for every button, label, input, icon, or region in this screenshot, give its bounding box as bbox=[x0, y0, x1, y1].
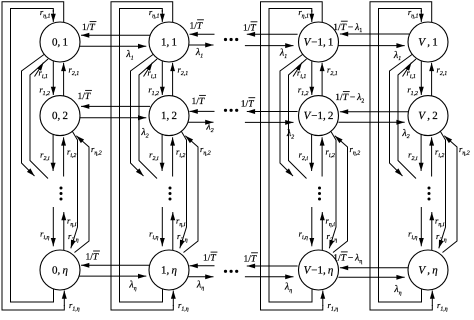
node V-1,1 bbox=[299, 22, 339, 62]
column 0: outer loop r_1eta wire bbox=[2, 2, 64, 310]
node 0,eta bbox=[40, 250, 80, 290]
node V,2 bbox=[408, 96, 448, 136]
column 3: arrow r_ieta bbox=[420, 207, 422, 246]
column 2: inner loop r_eta1 wire bbox=[269, 9, 312, 303]
row 2: lambda arrow rightward seg V-1-V bbox=[338, 121, 404, 123]
svg-text:1/T: 1/T bbox=[78, 92, 91, 102]
row 1: lambda arrow rightward seg dots-V-1 bbox=[245, 45, 294, 47]
column 0: arrow r_21 bbox=[63, 63, 65, 96]
column 3: wire+arrow r_2eta long right bbox=[439, 131, 446, 249]
svg-text:1/T − λ1: 1/T − λ1 bbox=[333, 23, 362, 34]
row 1: 1/T arrow leftward seg V-1-V bbox=[340, 33, 409, 35]
row 2: 1/T arrow leftward seg V-1-V bbox=[340, 111, 409, 113]
svg-text:1/T: 1/T bbox=[86, 253, 99, 263]
row 1: 1/T arrow leftward seg 0-1 bbox=[81, 34, 150, 36]
column 1: wire+arrow r_eta2 long right bbox=[184, 136, 199, 253]
column 2: outer loop r_1eta wire bbox=[261, 2, 323, 310]
column 3: wire+arrow r_eta2 long right bbox=[443, 136, 458, 253]
row 2: 1/T arrow leftward seg 0-1 bbox=[81, 105, 150, 107]
svg-text:1/T − λ2: 1/T − λ2 bbox=[335, 93, 364, 104]
column 3: arrow r_1eta into bottom node bbox=[431, 291, 433, 307]
column 1: arrow r_1eta into bottom node bbox=[172, 291, 174, 307]
column 3: wire+arrow r_1i long left bbox=[390, 55, 413, 177]
column 1: inner loop r_eta1 wire bbox=[120, 9, 163, 303]
svg-text:1, 2: 1, 2 bbox=[161, 110, 177, 122]
column 3: arrow r_eta1 into top node bbox=[420, 10, 422, 22]
node 1,eta bbox=[149, 250, 189, 290]
column 1: outer loop r_1eta wire bbox=[111, 2, 173, 310]
node 1,2 bbox=[149, 96, 189, 136]
column 3: arrow r_i2 bbox=[431, 137, 433, 176]
row 1: horizontal dots bbox=[224, 38, 227, 41]
column 3: wire r_i1 long left bbox=[398, 59, 416, 179]
column 2: wire+arrow r_1i long left bbox=[280, 55, 303, 177]
row 3: lambda arrow rightward seg 1-dots bbox=[188, 276, 213, 278]
column 3: arrow r_2i bbox=[420, 135, 422, 171]
column 2: arrow r_i1 into node bbox=[293, 63, 302, 77]
svg-text:1/T: 1/T bbox=[82, 23, 95, 33]
row 2: lambda arrow rightward seg 0-1 bbox=[79, 117, 146, 119]
svg-text:1/T: 1/T bbox=[244, 254, 257, 264]
column 2: wire r_i1 long left bbox=[289, 59, 307, 179]
column 2: wire+arrow r_2eta long right bbox=[329, 131, 336, 249]
column 2: wire+arrow r_eta2 long right bbox=[333, 136, 348, 253]
column 3: arrow r_i1 into node bbox=[403, 63, 412, 77]
column 0: wire r_i1 long left bbox=[30, 59, 48, 179]
column 0: wire+arrow r_1i long left bbox=[22, 55, 45, 177]
column 1: arrow r_etai bbox=[172, 212, 174, 250]
column 2: arrow r_eta1 into top node bbox=[311, 10, 313, 22]
column 2: arrow r_2i bbox=[311, 135, 313, 171]
row 3: lambda arrow rightward seg 0-1 bbox=[79, 275, 146, 277]
column 1: arrow r_21 bbox=[172, 63, 174, 96]
column 0: arrow r_etai bbox=[63, 212, 65, 250]
svg-text:V −1, 2: V −1, 2 bbox=[304, 110, 334, 122]
row 2: horizontal dots bbox=[224, 109, 227, 112]
row 3: horizontal dots bbox=[224, 270, 227, 273]
column 3: vertical dots bbox=[428, 187, 431, 190]
node V-1,eta bbox=[299, 250, 339, 290]
row 1: 1/T arrow leftward seg dots-V-1 bbox=[247, 33, 298, 35]
row 3: 1/T arrow leftward seg 0-1 bbox=[81, 264, 150, 266]
svg-text:V −1, 1: V −1, 1 bbox=[304, 37, 334, 49]
row 2: 1/T arrow leftward seg 1-dots bbox=[190, 110, 215, 112]
column 1: wire r_i1 long left bbox=[139, 59, 157, 179]
column 2: arrow r_i2 bbox=[321, 137, 323, 176]
row 1: lambda arrow rightward seg 1-dots bbox=[188, 44, 213, 46]
row 1: 1/T arrow leftward seg 1-dots bbox=[190, 33, 215, 35]
column 0: arrow r_ieta bbox=[52, 207, 54, 246]
svg-text:1/T: 1/T bbox=[241, 99, 254, 109]
column 2: arrow r_12 bbox=[311, 61, 313, 95]
row 3: 1/T arrow leftward seg dots-V-1 bbox=[247, 265, 298, 267]
column 2: arrow r_1eta into bottom node bbox=[322, 291, 324, 307]
column 1: wire+arrow r_2eta long right bbox=[180, 131, 187, 249]
column 0: arrow r_eta1 into top node bbox=[52, 10, 54, 22]
node V-1,2 bbox=[299, 96, 339, 136]
row 3: lambda arrow rightward seg V-1-V bbox=[338, 276, 404, 278]
svg-text:1/T: 1/T bbox=[203, 254, 216, 264]
node 0,2 bbox=[40, 96, 80, 136]
column 0: vertical dots bbox=[60, 187, 63, 190]
node 1,1 bbox=[149, 22, 189, 62]
column 1: wire+arrow r_1i long left bbox=[131, 55, 154, 177]
column 2: arrow r_21 bbox=[321, 63, 323, 96]
svg-text:0, η: 0, η bbox=[52, 265, 68, 277]
column 0: arrow r_1eta into bottom node bbox=[63, 291, 65, 307]
svg-text:V , 2: V , 2 bbox=[418, 110, 437, 122]
row 3: 1/T arrow leftward seg V-1-V bbox=[340, 267, 409, 269]
node V,1 bbox=[408, 22, 448, 62]
column 0: arrow r_i2 bbox=[63, 137, 65, 176]
node 0,1 bbox=[40, 22, 80, 62]
column 1: arrow r_12 bbox=[161, 61, 163, 95]
column 3: arrow r_etai bbox=[431, 212, 433, 250]
svg-text:1, η: 1, η bbox=[161, 265, 177, 277]
svg-text:1/T: 1/T bbox=[190, 21, 203, 31]
row 1: lambda arrow rightward seg 0-1 bbox=[79, 45, 146, 47]
column 1: arrow r_2i bbox=[161, 135, 163, 171]
column 3: outer loop r_1eta wire bbox=[370, 2, 432, 310]
column 0: wire+arrow r_eta2 long right bbox=[75, 136, 90, 253]
column 0: arrow r_i1 into node bbox=[35, 63, 44, 77]
svg-text:1/T: 1/T bbox=[243, 23, 256, 33]
column 0: inner loop r_eta1 wire bbox=[11, 9, 54, 303]
svg-text:1/T: 1/T bbox=[192, 97, 205, 107]
column 0: wire+arrow r_2eta long right bbox=[71, 131, 78, 249]
row 3: 1/T arrow leftward seg 1-dots bbox=[190, 265, 215, 267]
column 2: arrow r_etai bbox=[321, 212, 323, 250]
column 0: arrow r_12 bbox=[52, 61, 54, 95]
column 3: arrow r_21 bbox=[431, 63, 433, 96]
svg-text:0, 2: 0, 2 bbox=[52, 110, 68, 122]
row 1: lambda arrow rightward seg V-1-V bbox=[338, 45, 404, 47]
svg-text:0, 1: 0, 1 bbox=[52, 37, 68, 49]
column 2: arrow r_ieta bbox=[311, 207, 313, 246]
column 3: arrow r_12 bbox=[420, 61, 422, 95]
row 2: 1/T arrow leftward seg dots-V-1 bbox=[247, 111, 298, 113]
svg-text:V , 1: V , 1 bbox=[418, 37, 437, 49]
svg-text:V −1, η: V −1, η bbox=[304, 265, 334, 277]
node V,eta bbox=[408, 250, 448, 290]
column 2: vertical dots bbox=[318, 187, 321, 190]
column 1: arrow r_i2 bbox=[172, 137, 174, 176]
column 1: arrow r_eta1 into top node bbox=[161, 10, 163, 22]
column 1: vertical dots bbox=[169, 187, 172, 190]
svg-text:V , η: V , η bbox=[418, 265, 437, 277]
column 3: inner loop r_eta1 wire bbox=[379, 9, 422, 303]
row 3: lambda arrow rightward seg dots-V-1 bbox=[245, 276, 294, 278]
column 0: arrow r_2i bbox=[52, 135, 54, 171]
column 1: arrow r_ieta bbox=[161, 207, 163, 246]
row 2: lambda arrow rightward seg dots-V-1 bbox=[245, 121, 294, 123]
svg-text:1, 1: 1, 1 bbox=[161, 37, 177, 49]
column 1: arrow r_i1 into node bbox=[144, 63, 153, 77]
row 2: lambda arrow rightward seg 1-dots bbox=[188, 121, 213, 123]
